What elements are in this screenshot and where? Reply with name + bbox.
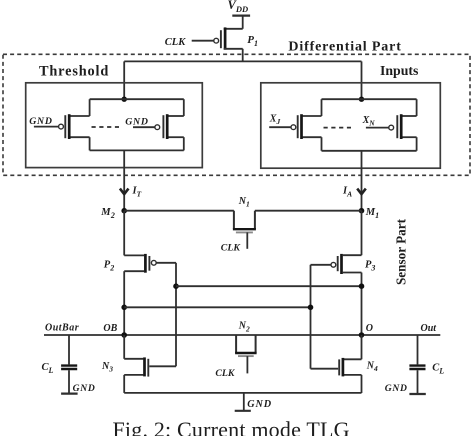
svg-text:IT: IT xyxy=(132,186,142,199)
wire threshold loop top rail xyxy=(90,98,184,100)
node M2 xyxy=(121,208,127,214)
svg-text:Inputs: Inputs xyxy=(380,63,419,78)
wire N4 source down xyxy=(361,375,363,393)
transistor N4 xyxy=(339,335,378,376)
wire bottom GND rail xyxy=(124,392,361,394)
wire split rail xyxy=(124,60,361,62)
svg-text:N4: N4 xyxy=(366,360,378,373)
wire M2 down to P2 xyxy=(123,211,125,256)
svg-text:Threshold: Threshold xyxy=(39,63,109,79)
svg-text:GND: GND xyxy=(125,117,148,128)
wire M2 to N1 xyxy=(124,210,234,212)
transistor threshold left PMOS xyxy=(59,114,90,139)
svg-text:OB: OB xyxy=(103,323,117,334)
node P3 drain xyxy=(359,283,365,289)
svg-text:XJ: XJ xyxy=(269,114,281,127)
svg-text:Fig. 2: Current mode TLG: Fig. 2: Current mode TLG xyxy=(113,417,350,436)
wire GND to right gate xyxy=(133,126,155,128)
svg-text:CLK: CLK xyxy=(215,368,236,379)
svg-text:IA: IA xyxy=(342,186,352,199)
transistor N1 xyxy=(233,196,256,249)
wire threshold loop bottom rail xyxy=(90,149,184,151)
wire cross coupling to P3 gate xyxy=(124,306,310,308)
wire inputs loop left verticals xyxy=(321,99,323,116)
wire P3 gate left xyxy=(311,264,332,266)
node O xyxy=(359,332,365,338)
wire threshold loop left verticals xyxy=(89,99,91,116)
wire inputs loop output down xyxy=(361,151,363,211)
box Inputs xyxy=(261,83,441,168)
wire right branch down xyxy=(361,61,363,99)
dashes more transistors (inputs) xyxy=(324,127,352,129)
transistor N2 xyxy=(235,321,257,374)
svg-text:M2: M2 xyxy=(100,207,115,220)
node P2 gate / cross wire xyxy=(173,283,179,289)
wire cross coupling to P3 drain xyxy=(176,285,362,287)
wire inputs loop right verticals xyxy=(416,99,418,116)
node M1 xyxy=(359,208,365,214)
wire inputs loop bottom rail xyxy=(322,150,417,152)
transistor P2 xyxy=(104,254,156,273)
transistor input XN PMOS xyxy=(389,114,417,139)
node threshold loop top junction xyxy=(122,97,127,102)
node P3 gate / cross wire xyxy=(308,305,314,311)
ground bar (left cap) xyxy=(61,393,78,395)
svg-text:M1: M1 xyxy=(365,207,379,220)
svg-text:N3: N3 xyxy=(101,361,113,374)
transistor P1 xyxy=(214,27,258,49)
svg-text:O: O xyxy=(366,323,373,334)
node P2 drain xyxy=(121,305,127,311)
svg-text:P1: P1 xyxy=(247,34,258,48)
wire threshold loop output down xyxy=(123,150,125,210)
svg-text:GND: GND xyxy=(247,399,272,410)
svg-text:P2: P2 xyxy=(104,259,114,272)
wire XN to gate xyxy=(366,127,389,129)
node OB xyxy=(121,332,127,338)
svg-text:N2: N2 xyxy=(238,321,250,334)
wire N1 to M1 xyxy=(255,210,362,212)
transistor N3 xyxy=(101,335,148,377)
wire XJ to gate xyxy=(269,126,291,128)
arrow IT current xyxy=(120,189,129,195)
wire N3 source down xyxy=(123,375,125,393)
wire P2 gate vertical down xyxy=(175,263,177,367)
box Threshold xyxy=(26,83,203,168)
wire P2 drain down to OB node xyxy=(123,271,125,335)
svg-text:CL: CL xyxy=(432,362,444,375)
svg-text:P3: P3 xyxy=(365,259,375,272)
transistor P3 xyxy=(331,254,375,274)
svg-text:Out: Out xyxy=(421,323,438,334)
svg-text:CLK: CLK xyxy=(165,37,186,48)
ground symbol bottom xyxy=(235,393,251,411)
wire threshold loop right verticals xyxy=(183,99,185,116)
svg-text:GND: GND xyxy=(73,383,96,394)
wire P1 drain down xyxy=(242,49,244,62)
transistor threshold right PMOS xyxy=(155,114,184,139)
power VDD rail bar xyxy=(232,15,250,17)
ground bar (right cap) xyxy=(409,393,425,395)
svg-text:CLK: CLK xyxy=(221,243,242,254)
svg-text:GND: GND xyxy=(29,116,52,127)
svg-text:VDD: VDD xyxy=(228,0,249,14)
capacitor CL left xyxy=(42,335,78,393)
wire GND to left gate xyxy=(34,126,59,128)
node inputs loop top junction xyxy=(359,97,364,102)
dashes more transistors (threshold) xyxy=(92,126,120,128)
svg-text:Differential Part: Differential Part xyxy=(288,39,401,54)
arrow IA current xyxy=(357,189,366,195)
svg-text:XN: XN xyxy=(362,115,376,128)
wire N3 gate right xyxy=(149,365,176,367)
wire N4 gate left xyxy=(311,368,339,370)
dashed box Differential Part xyxy=(3,54,470,175)
svg-text:OutBar: OutBar xyxy=(45,323,79,334)
svg-text:N1: N1 xyxy=(238,196,250,209)
transistor input XJ PMOS xyxy=(291,114,322,139)
wire inputs loop top rail xyxy=(322,98,417,100)
wire output rail OutBar to Out xyxy=(44,334,440,336)
wire P3 drain down to O node xyxy=(361,273,363,336)
svg-text:Sensor Part: Sensor Part xyxy=(393,218,408,285)
wire M1 down to P3 xyxy=(361,211,363,256)
wire VDD to P1 source xyxy=(242,16,244,29)
wire CLK to P1 gate xyxy=(192,40,214,42)
wire P2 gate right xyxy=(156,262,176,264)
svg-text:GND: GND xyxy=(385,383,408,394)
wire left branch down xyxy=(123,61,125,99)
svg-text:CL: CL xyxy=(42,362,54,375)
wire P3 gate vertical down xyxy=(310,265,312,369)
capacitor CL right xyxy=(409,335,444,394)
